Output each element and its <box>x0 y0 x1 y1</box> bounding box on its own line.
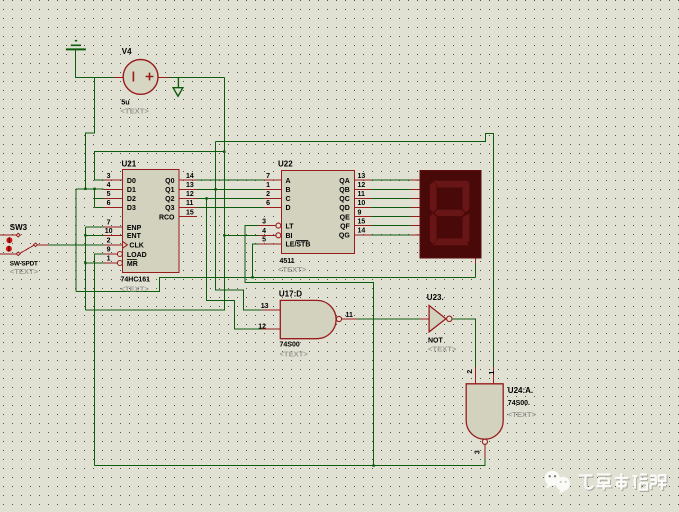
wire QA to 7seg <box>371 179 411 181</box>
svg-text:<TEXT>: <TEXT> <box>121 284 150 293</box>
svg-text:15: 15 <box>358 218 366 225</box>
pin U22 C stub <box>264 197 281 199</box>
wire QE to 7seg <box>371 216 411 218</box>
pin U21 Q0 stub <box>179 179 197 181</box>
svg-text:RCO: RCO <box>159 214 175 221</box>
svg-text:1: 1 <box>489 371 496 375</box>
pin U21 D1 stub <box>104 188 123 190</box>
wire ENP row <box>85 226 103 228</box>
wire D1-D2-D3 link <box>94 189 96 208</box>
7seg segment b <box>463 182 470 213</box>
wire LT staircase to bottom rail <box>245 226 374 466</box>
svg-text:C: C <box>286 196 291 203</box>
wire D3 row <box>95 207 104 209</box>
wire bottom rail to U24 output <box>94 458 485 465</box>
wire ENP/ENT/MR vertical <box>84 227 86 310</box>
battery V4 <box>123 60 158 95</box>
svg-text:74HC161: 74HC161 <box>121 277 151 284</box>
svg-text:5: 5 <box>107 191 111 198</box>
wire +5V vertical from V4 <box>223 77 225 310</box>
wire Q3 to D <box>197 207 264 209</box>
bubble U21 MR <box>117 261 122 266</box>
svg-text:QC: QC <box>339 196 350 203</box>
svg-text:<TEXT>: <TEXT> <box>121 107 150 116</box>
svg-text:CLK: CLK <box>129 243 143 250</box>
pin U22 LT stub <box>259 225 277 227</box>
inverter U23 body <box>429 306 446 332</box>
svg-text:13: 13 <box>261 303 269 310</box>
svg-text:1: 1 <box>107 256 111 263</box>
svg-text:D0: D0 <box>127 178 136 185</box>
pin U21 Q2 stub <box>179 197 197 199</box>
pin U21 Q3 stub <box>179 207 197 209</box>
wire U23 output down to U24 pin2 <box>452 319 475 367</box>
pin U22 QB stub <box>355 188 371 190</box>
svg-text:14: 14 <box>186 173 194 180</box>
pin U21 ENP stub <box>104 226 123 228</box>
wire H2 5V branch to D0 <box>95 152 225 181</box>
svg-text:<TEXT>: <TEXT> <box>428 345 457 354</box>
svg-text:D: D <box>286 205 291 212</box>
svg-text:3: 3 <box>262 218 266 225</box>
svg-text:11: 11 <box>346 312 354 319</box>
pin U17 in13 stub <box>262 309 281 311</box>
wire U17 output to U23 input <box>358 318 421 320</box>
7seg segment a <box>433 181 469 188</box>
wire SW3 lever to CLK red part <box>37 244 48 246</box>
svg-text:9: 9 <box>358 209 362 216</box>
pin 7seg c stub <box>411 197 421 199</box>
svg-text:QF: QF <box>340 223 350 230</box>
svg-text:74S00: 74S00 <box>280 341 300 348</box>
svg-text:QB: QB <box>339 187 350 194</box>
svg-text:QD: QD <box>339 205 350 212</box>
svg-text:12: 12 <box>358 182 366 189</box>
wire QB to 7seg <box>371 188 411 190</box>
wire Q2 to C <box>197 197 264 199</box>
node bottom rail junction <box>372 464 374 466</box>
wire QG to 7seg <box>371 234 411 236</box>
counter U21 74HC161 body <box>123 170 180 273</box>
svg-text:6: 6 <box>107 200 111 207</box>
pin V4 minus stub <box>114 76 124 78</box>
svg-text:74S00.: 74S00. <box>508 400 530 407</box>
svg-text:7: 7 <box>107 220 111 227</box>
svg-text:10: 10 <box>105 228 113 235</box>
bubble U23 output <box>447 316 452 321</box>
pin SW3 top throw <box>0 234 17 236</box>
wire BI row from +5V vertical <box>224 234 258 236</box>
pin V4 plus stub <box>158 76 169 78</box>
svg-text:QE: QE <box>340 214 350 221</box>
svg-text:BI: BI <box>286 233 293 240</box>
7-segment display body <box>420 170 481 258</box>
svg-text:15: 15 <box>186 209 194 216</box>
wire LOAD down to bottom rail <box>94 254 103 466</box>
7seg segment d <box>433 238 469 245</box>
svg-text:2: 2 <box>467 370 474 374</box>
svg-text:ENP: ENP <box>127 225 142 232</box>
svg-text:LOAD: LOAD <box>127 252 147 259</box>
svg-text:NOT: NOT <box>428 337 444 344</box>
nand U17:D body <box>280 300 336 338</box>
wire D1 to gnd rail vertical <box>75 189 77 292</box>
node 5V-H2 junction <box>223 151 225 153</box>
svg-text:U21: U21 <box>122 160 137 169</box>
svg-text:11: 11 <box>358 191 366 198</box>
7seg segment g <box>434 210 465 216</box>
wire QF to 7seg <box>371 225 411 227</box>
svg-text:U17:D: U17:D <box>279 289 302 298</box>
wire SW3 lever <box>20 245 35 253</box>
logo wechat bubbles <box>545 471 570 494</box>
bubble U21 LOAD <box>117 252 122 257</box>
wire H1 net: corner to U24 pin1 long vertical <box>216 134 494 368</box>
svg-text:QA: QA <box>339 178 350 185</box>
wire SW3 to CLK <box>48 244 104 246</box>
pin 7seg b stub <box>411 188 421 190</box>
svg-text:1: 1 <box>266 182 270 189</box>
svg-text:13: 13 <box>186 182 194 189</box>
svg-text:D2: D2 <box>127 196 136 203</box>
pin U22 A stub <box>264 179 281 181</box>
node SW3 top contact <box>16 233 20 237</box>
pin U21 CLK stub <box>104 244 122 246</box>
node ENT junction <box>84 234 86 236</box>
pin U17 out stub <box>342 318 358 320</box>
svg-text:4: 4 <box>107 182 111 189</box>
pin U17 in12 stub <box>262 328 281 330</box>
node SW3 pole contact <box>16 252 20 256</box>
pin U22 QE stub <box>355 216 371 218</box>
svg-text:5: 5 <box>262 237 266 244</box>
node BI junction <box>223 234 225 236</box>
svg-text:ENT: ENT <box>127 233 142 240</box>
svg-text:10: 10 <box>358 200 366 207</box>
clock wedge U21 CLK <box>122 241 127 248</box>
svg-text:11: 11 <box>186 200 194 207</box>
bubble U17 output <box>336 316 341 321</box>
wire 7seg common stub down <box>475 263 477 277</box>
pin U22 QC stub <box>355 197 371 199</box>
pin U21 D3 stub <box>104 207 123 209</box>
wire ground stem to V4 <box>75 50 113 77</box>
svg-text:LE/STB: LE/STB <box>286 242 311 249</box>
wire Q1 to B <box>197 188 264 190</box>
svg-text:V4: V4 <box>122 47 132 56</box>
wire gnd jog down-left to D1 <box>85 77 94 189</box>
svg-text:3: 3 <box>107 173 111 180</box>
svg-text:7: 7 <box>266 173 270 180</box>
node Q2 tap junction <box>205 197 207 199</box>
pin U21 LOAD stub <box>104 253 118 255</box>
svg-text:D1: D1 <box>127 187 136 194</box>
svg-text:<TEXT>: <TEXT> <box>280 350 309 359</box>
pin U21 MR stub <box>104 262 118 264</box>
pin U21 D0 stub <box>104 179 123 181</box>
svg-text:A: A <box>286 178 291 185</box>
wire Q0 to A <box>197 179 264 181</box>
svg-text:B: B <box>286 187 291 194</box>
pin U24 pin2 stub <box>474 367 476 384</box>
node Q1 tap junction <box>214 188 216 190</box>
pin U21 Q1 stub <box>179 188 197 190</box>
wire V4 plus to +5V corner <box>169 76 224 78</box>
power arrow <box>173 77 183 96</box>
svg-text:Q2: Q2 <box>165 196 174 203</box>
watermark text strokes <box>580 475 668 491</box>
switch SW3 <box>6 237 13 252</box>
wire ENT row <box>85 234 103 236</box>
node LE gnd rail junction <box>251 276 253 278</box>
svg-text:LT: LT <box>286 223 295 230</box>
wire D2 row <box>95 197 104 199</box>
svg-text:<TEXT>: <TEXT> <box>508 410 537 419</box>
svg-text:6: 6 <box>266 200 270 207</box>
pin U21 ENT stub <box>104 234 123 236</box>
pin U22 QA stub <box>355 179 371 181</box>
svg-text:12: 12 <box>258 323 266 330</box>
svg-text:5u: 5u <box>121 98 129 107</box>
svg-text:2: 2 <box>266 191 270 198</box>
pin SW3 pole <box>0 253 17 255</box>
wire U17 pin13 feed line <box>85 301 224 310</box>
svg-text:14: 14 <box>358 228 366 235</box>
node D1 gnd junction <box>84 188 86 190</box>
pin U22 LE stub <box>259 243 282 245</box>
pin U21 RCO stub <box>179 216 197 218</box>
bubble U22 BI <box>276 233 281 238</box>
nand U24:A body vertical <box>466 384 503 439</box>
svg-text:4511: 4511 <box>280 258 295 265</box>
svg-text:9: 9 <box>107 247 111 254</box>
7seg segment c <box>463 213 470 244</box>
pin U23 in stub <box>420 318 429 320</box>
svg-text:Q0: Q0 <box>165 178 174 185</box>
svg-text:U22: U22 <box>278 160 293 169</box>
pin 7seg common stub <box>475 258 477 263</box>
wire gnd rail under U21 to 7seg common <box>76 277 476 291</box>
svg-text:12: 12 <box>186 191 194 198</box>
svg-text:D3: D3 <box>127 205 136 212</box>
bubble U24 output <box>482 439 487 444</box>
svg-text:2: 2 <box>107 238 111 245</box>
pin U22 D stub <box>264 207 281 209</box>
7seg segment f <box>430 182 437 213</box>
svg-text:Q3: Q3 <box>165 205 174 212</box>
decoder U22 4511 body <box>282 171 355 254</box>
wire Q2 tap down staircase to U17 pin12 <box>207 198 225 300</box>
wire D1 row <box>76 188 104 190</box>
wire H1 left leg down and to U17 pin13 line <box>216 142 262 310</box>
node D1 down junction <box>93 188 95 190</box>
wire QD to 7seg <box>371 207 411 209</box>
wire MR row <box>85 262 103 264</box>
svg-text:Q1: Q1 <box>165 187 174 194</box>
pin U22 B stub <box>264 188 281 190</box>
pin U24 pin1 stub <box>493 367 495 384</box>
pin 7seg f stub <box>411 225 421 227</box>
bubble U22 LT <box>276 223 281 228</box>
svg-text:<TEXT>: <TEXT> <box>10 267 39 276</box>
svg-text:4: 4 <box>262 228 266 235</box>
svg-text:SW3: SW3 <box>10 223 28 232</box>
pin U24 out stub <box>484 444 486 458</box>
svg-text:QG: QG <box>339 233 350 240</box>
pin U22 QF stub <box>355 225 371 227</box>
svg-text:U23.: U23. <box>427 293 444 302</box>
pin U22 QD stub <box>355 207 371 209</box>
pin U22 QG stub <box>355 234 371 236</box>
svg-text:13: 13 <box>358 173 366 180</box>
node SW3 lever contact <box>34 243 38 247</box>
wire LE/STB to gnd rail <box>253 244 259 277</box>
pin 7seg a stub <box>411 179 421 181</box>
pin 7seg g stub <box>411 234 421 236</box>
pin 7seg d stub <box>411 207 421 209</box>
7seg segment e <box>430 213 437 244</box>
svg-text:U24:A.: U24:A. <box>508 386 533 395</box>
pin U22 BI stub <box>259 234 277 236</box>
node MR junction <box>84 262 86 264</box>
svg-text:<TEXT>: <TEXT> <box>278 265 307 274</box>
wire QC to 7seg <box>371 197 411 199</box>
pin 7seg e stub <box>411 216 421 218</box>
svg-text:MR: MR <box>127 261 138 268</box>
svg-text:3: 3 <box>475 450 482 454</box>
ground <box>66 41 86 50</box>
pin U21 D2 stub <box>104 197 123 199</box>
